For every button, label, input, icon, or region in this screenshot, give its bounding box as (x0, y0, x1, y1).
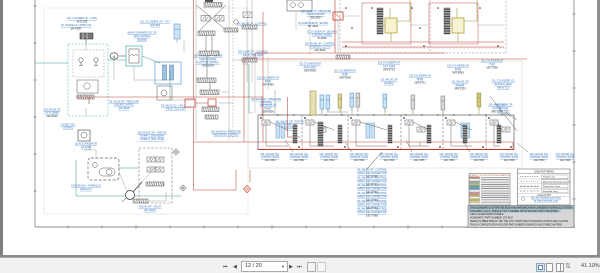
bank section 6 links (488, 117, 511, 147)
fan box olive piping (380, 0, 477, 42)
red relief valve block B (208, 99, 216, 106)
svg-text:CONTROL: CONTROL (384, 81, 394, 85)
label below bank 9 (500, 152, 519, 162)
nav: back view icon (307, 262, 316, 272)
manifold bar S2 (242, 25, 257, 29)
spool pilot D (156, 167, 164, 172)
svg-text:309-5926: 309-5926 (202, 64, 214, 68)
label: valve gp lift lower (44, 107, 61, 118)
label below bank 10 (530, 152, 549, 162)
svg-text:PILOT 222-1297: PILOT 222-1297 (166, 107, 187, 111)
olive pilot drops to bank (322, 107, 479, 115)
page bottom shadow (0, 255, 600, 257)
manifold bar near ride control (336, 55, 350, 59)
bank section 5 valve stack (463, 125, 467, 143)
manifold connecting lines (206, 36, 212, 90)
bank section 3 spool (352, 120, 360, 125)
central manifold column frame (196, 0, 233, 140)
bank section 2 valve stack (338, 125, 342, 143)
sheet left border ruler (34, 0, 36, 227)
bank section 4 spool (405, 120, 413, 125)
teal pilot return lines (76, 64, 249, 196)
view mode icon active (536, 263, 545, 272)
sheet right border ruler (573, 0, 575, 227)
leader diagonals below bank (285, 140, 528, 152)
title note gray box (468, 206, 574, 228)
svg-text:192-7955: 192-7955 (414, 158, 426, 162)
label below bank 2 (290, 152, 309, 162)
manifold bar M2 (198, 31, 215, 36)
bank section 3 valve stack (388, 125, 392, 143)
spool secondary S1 (243, 12, 252, 18)
pilot manifold bar (146, 182, 164, 186)
label below bank 1 (261, 152, 280, 162)
manifold bar M7 (205, 115, 218, 119)
label above bank 5 (381, 78, 398, 85)
teal pilot line left cluster (35, 56, 160, 63)
fan valve stack 1 (377, 8, 383, 34)
nav: page number field (241, 261, 288, 272)
main pump circle (122, 182, 142, 202)
inlet stack left (318, 122, 323, 146)
nav: next page button (289, 263, 296, 270)
red relief valve block A (185, 99, 195, 107)
svg-text:2H-6397: 2H-6397 (70, 27, 81, 31)
svg-text:256-6711: 256-6711 (414, 80, 426, 84)
svg-text:193-2311: 193-2311 (498, 109, 510, 113)
svg-text:345-9983: 345-9983 (262, 82, 274, 86)
misc fine connection lines (84, 40, 253, 201)
label: oil cylinder up - tilt (140, 20, 170, 27)
label: oil charge of lower cab (61, 23, 91, 31)
bank top node dots (261, 114, 502, 115)
bank section 4 small spool (417, 127, 425, 132)
svg-text:192-7958: 192-7958 (504, 158, 516, 162)
counterweight box with circles (287, 0, 312, 11)
fan motor red outline 1 (362, 3, 411, 44)
label below bank 8 (470, 152, 489, 162)
note column label 5 (357, 199, 387, 210)
manifold bar M5 (200, 90, 219, 95)
bank section 4 valve stack (427, 125, 431, 143)
manifold bar S3 (242, 58, 257, 62)
view mode icon 2 (546, 263, 553, 272)
bank internal dividers (302, 115, 486, 150)
label above bank 9 (452, 80, 469, 91)
fan valve stack 2 (444, 8, 450, 34)
nav: first page button (223, 263, 231, 270)
label: main forward tilt control (128, 31, 157, 42)
label: valve up pressure (301, 9, 331, 20)
svg-text:192-7960: 192-7960 (560, 158, 572, 162)
svg-text:8P-4225: 8P-4225 (308, 24, 319, 28)
diagonal pilot lines (196, 5, 226, 30)
cylinder symbol top-left (80, 33, 93, 44)
label: oil valve up control 1 (237, 22, 267, 29)
fan yellow block 1 (385, 18, 397, 33)
actuator cylinder 8 (441, 96, 445, 114)
spool pilot A (147, 157, 155, 162)
label: valve as pressure reducing (211, 129, 241, 136)
label: valve gp control 2 (238, 50, 268, 57)
upper distribution lines (255, 11, 504, 113)
label: valve up control steering (305, 41, 335, 52)
sheet bottom border ruler (35, 226, 575, 228)
label below bank 4 (350, 152, 369, 162)
svg-text:345-2301: 345-2301 (454, 86, 466, 90)
label: valve gp piston loader (276, 119, 305, 130)
actuator cylinder 6 (383, 94, 387, 112)
pump manifold bar (133, 199, 148, 203)
app background right sliver (597, 0, 600, 256)
bank section 2 spool (306, 120, 314, 125)
spool V1a (201, 16, 210, 22)
svg-text:192-7956: 192-7956 (444, 158, 456, 162)
red inlet component (333, 12, 343, 20)
svg-text:CONTROL: CONTROL (63, 126, 73, 130)
label above bank 6 (409, 74, 431, 85)
svg-text:PILOT 259-4025: PILOT 259-4025 (243, 53, 263, 57)
line patterns table (518, 169, 572, 205)
check valve diamond 1 (173, 149, 179, 155)
label: valve gp piston pumps (138, 130, 167, 141)
label below bank 3 (320, 152, 339, 162)
secondary column verticals (247, 0, 252, 82)
bank section 3 pilot cylinders (366, 123, 375, 138)
svg-text:at final-manuals.com: at final-manuals.com (534, 200, 558, 203)
svg-text:189-3608: 189-3608 (339, 75, 351, 79)
note column label 6 (357, 207, 387, 218)
actuator cylinder 5 (338, 94, 342, 112)
svg-text:W-0629: W-0629 (317, 36, 327, 40)
actuator cylinder 7 (411, 95, 415, 113)
svg-text:192-7952: 192-7952 (324, 158, 336, 162)
solenoid block light-blue box (155, 62, 181, 84)
svg-text:192-7959: 192-7959 (534, 158, 546, 162)
small valve box below solenoid block (157, 86, 172, 100)
label: loader tool control (61, 122, 76, 129)
label: valve as pressure (251, 97, 281, 104)
label below bank 7 (440, 152, 459, 162)
nav: last page button (297, 263, 305, 270)
svg-text:256-0000: 256-0000 (262, 109, 274, 113)
bank section 1 spool (262, 120, 270, 125)
svg-text:218-9538: 218-9538 (119, 106, 130, 110)
svg-text:345-9983: 345-9983 (452, 70, 464, 74)
bank section 5 links (445, 117, 483, 147)
hydraulic tank rounded box (88, 158, 119, 180)
label: accumulator (75, 142, 97, 149)
view mode icon 4 (565, 262, 573, 271)
svg-text:189-3606: 189-3606 (304, 68, 316, 72)
fan box red piping (335, 0, 504, 53)
svg-text:329-5827: 329-5827 (310, 16, 322, 20)
label below bank 6 (410, 152, 429, 162)
manifold bar under pump box (77, 95, 94, 99)
label above bank 1 (257, 76, 279, 87)
main red supply line upper (76, 0, 527, 191)
nav: prev page button (233, 263, 240, 270)
svg-text:A: A (113, 54, 116, 59)
pilot pump circle (110, 53, 126, 59)
manifold bar R1 (224, 28, 238, 32)
fan motor red outline 2 (429, 3, 478, 44)
zoom percent (581, 263, 600, 269)
svg-text:Main Line Sensing Pressure: Main Line Sensing Pressure (543, 180, 571, 183)
spool pilot C (147, 167, 155, 172)
label above bank 2 (299, 62, 321, 73)
bank section 6 small spool (502, 127, 510, 132)
svg-text:256-6713: 256-6713 (383, 67, 395, 71)
svg-text:245-9717: 245-9717 (80, 187, 92, 191)
svg-text:192-7957: 192-7957 (474, 158, 486, 162)
lower valve bank enclosure outline (248, 61, 522, 168)
actuator cylinder 2 (326, 95, 330, 113)
label above bank 3 (334, 69, 356, 80)
tilt cylinder (174, 24, 180, 43)
svg-text:CALLOUTS: CALLOUTS (537, 193, 551, 197)
gray link lines above bank (262, 90, 358, 115)
isolating valve teal box (126, 46, 142, 66)
svg-text:192-7953: 192-7953 (354, 158, 366, 162)
label above bank 7 (447, 64, 469, 75)
manifold bar M3 (199, 51, 219, 56)
note column label 4 (357, 191, 387, 202)
view mode icon 3 (556, 263, 564, 272)
svg-text:192-7965: 192-7965 (366, 214, 379, 218)
bank section 2 links (304, 117, 345, 147)
label: cooler hydraulic (71, 184, 101, 191)
left system enclosure outline (44, 8, 248, 214)
bank section 1 links (260, 117, 299, 147)
fan enclosure inner dashed line (341, 47, 505, 49)
accumulator symbol (78, 130, 90, 141)
label: valve isolating (161, 103, 191, 110)
bank section 1 valve stack (293, 125, 297, 143)
manifold bar M4 (197, 78, 216, 83)
label: valve gp lever (194, 54, 223, 68)
bank section 4 links (403, 117, 440, 147)
brake pump dashed box (68, 44, 108, 116)
legend color table (469, 174, 510, 206)
note column label 3 (357, 183, 387, 194)
gauge G2 (94, 58, 98, 65)
svg-text:THIS IS A COMPLETE BOOK INCLUD: THIS IS A COMPLETE BOOK INCLUDES PART NU… (470, 223, 562, 226)
bank section 5 spool (447, 120, 455, 125)
fan box node dots (345, 7, 499, 47)
label below bank 11 (556, 152, 575, 162)
spool V1b (215, 16, 224, 22)
check valve diamond 2 (180, 185, 186, 191)
note column label 2 (357, 175, 387, 186)
label above bank 4 (378, 61, 400, 72)
svg-text:192-7950: 192-7950 (265, 158, 277, 162)
svg-text:192-7951: 192-7951 (294, 158, 306, 162)
pump sub box (77, 80, 98, 93)
cut-off component at top edge (205, 0, 213, 2)
inlet tan valve band (310, 91, 316, 115)
nav: forward view icon (317, 262, 326, 272)
bank section 6 valve stack (497, 125, 501, 143)
svg-text:REDUCING 1 (97823): REDUCING 1 (97823) (214, 133, 239, 137)
label: valve gp pressure loader (109, 99, 139, 110)
leader line to note column (366, 152, 382, 170)
actuator cylinder 9 (477, 93, 481, 111)
svg-text:192-7954: 192-7954 (384, 158, 396, 162)
spool pilot B (156, 157, 164, 162)
fan drive dashed enclosure (340, 0, 506, 53)
bank section 3 links (350, 117, 398, 147)
bank bottom red rail (258, 149, 514, 151)
svg-text:4667966: 4667966 (150, 23, 160, 27)
svg-text:347-6013: 347-6013 (144, 208, 156, 212)
bank section 5 pilot cylinders (461, 123, 470, 138)
actuator cylinder 1 (320, 95, 324, 113)
actuator cylinder 4 (356, 93, 360, 111)
note column label 1 (357, 168, 387, 179)
label above bank 10 (489, 103, 506, 114)
label above bank 8 (481, 59, 503, 70)
label: valve gp pilot (139, 205, 162, 212)
label: compouler up return (298, 21, 328, 28)
main control valve bank body (258, 115, 514, 150)
svg-text:LINE PATTERNS: LINE PATTERNS (534, 169, 554, 173)
label: callouts link (531, 197, 562, 203)
small circle valve R1 (234, 20, 238, 24)
bank section 1 pilot cylinders (276, 123, 285, 138)
manifold bar M6 (202, 107, 219, 112)
fan yellow block 2 (452, 18, 464, 33)
svg-text:5516062: 5516062 (137, 37, 147, 41)
svg-text:SERIAL NUMBER PREFIX: A8P, THE: SERIAL NUMBER PREFIX: A8P, THE 4-PLY PAR… (470, 220, 568, 223)
label above bank 11 (260, 103, 277, 114)
svg-text:Pump Drive Case: Pump Drive Case (543, 185, 561, 188)
gauge G1 (79, 58, 83, 65)
svg-text:192-7958: 192-7958 (486, 65, 498, 69)
manifold bar M1 (204, 3, 222, 8)
svg-text:PUMP 2 (254-4749): PUMP 2 (254-4749) (140, 137, 164, 141)
bank section 6 spool (490, 120, 498, 125)
svg-text:Pilot(P) Line: Pilot(P) Line (543, 176, 556, 179)
actuator cylinder 3 (350, 93, 354, 111)
label: right outlet (496, 103, 513, 114)
svg-text:345-6713: 345-6713 (497, 85, 509, 89)
svg-text:Buy this hydraulic schematic: Buy this hydraulic schematic (531, 197, 562, 200)
relief diamond salmon (243, 185, 251, 193)
label: right cylinder pair (492, 79, 515, 90)
label: cylinder up delivery (307, 29, 337, 40)
svg-text:226-5816: 226-5816 (46, 114, 58, 118)
leader to right labels (490, 96, 517, 131)
label below bank 5 (380, 152, 399, 162)
svg-text:145-9530: 145-9530 (314, 48, 326, 52)
label: oil cylinder (2) lt/rh (67, 16, 97, 24)
bank section 2 small spool (318, 127, 326, 132)
svg-text:Extended Grey: Extended Grey (543, 190, 558, 193)
pilot filter dashed box (139, 148, 172, 203)
